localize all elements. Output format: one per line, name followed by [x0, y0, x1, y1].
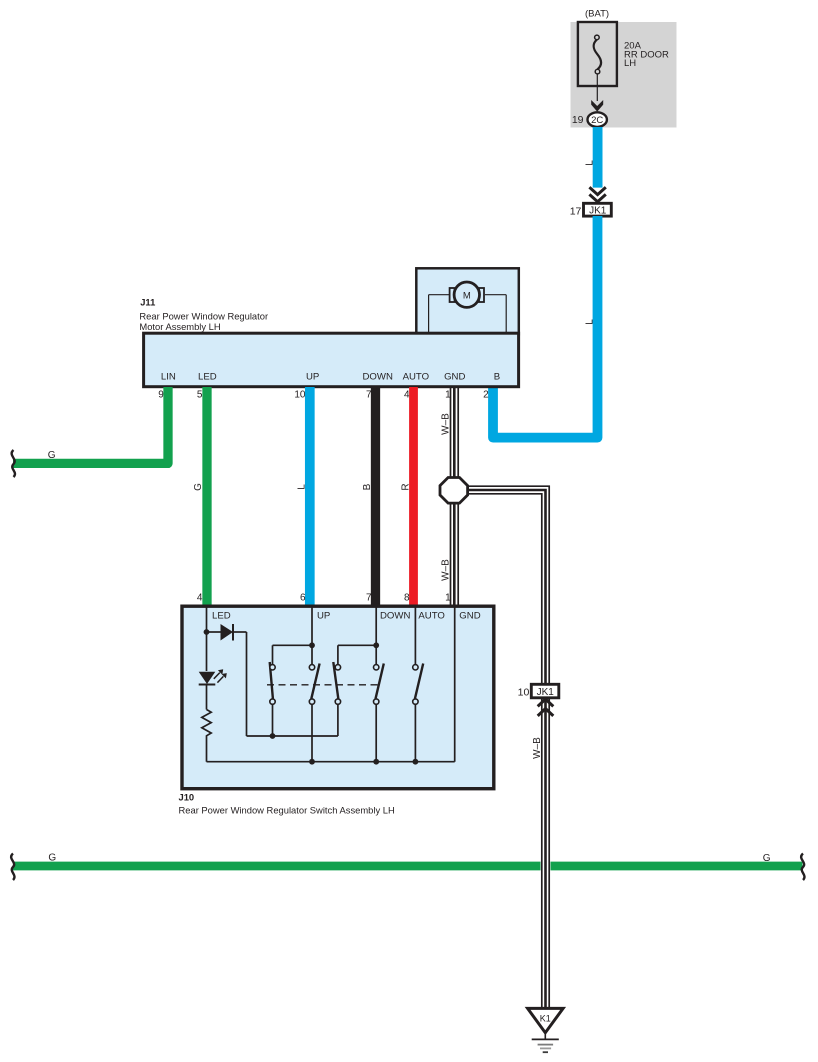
svg-text:JK1: JK1	[537, 687, 555, 698]
svg-text:6: 6	[300, 593, 306, 604]
svg-text:10: 10	[518, 687, 530, 699]
svg-text:L: L	[585, 160, 596, 166]
svg-text:G: G	[48, 853, 56, 864]
svg-text:W–B: W–B	[440, 559, 451, 581]
svg-text:5: 5	[197, 390, 203, 401]
svg-text:8: 8	[404, 593, 410, 604]
svg-text:DOWN: DOWN	[380, 611, 410, 622]
svg-text:W–B: W–B	[532, 737, 543, 759]
svg-text:17: 17	[570, 206, 582, 218]
svg-text:M: M	[463, 290, 471, 301]
svg-text:1: 1	[445, 593, 451, 604]
svg-text:19: 19	[572, 114, 584, 126]
svg-text:AUTO: AUTO	[403, 372, 429, 383]
svg-text:W–B: W–B	[440, 413, 451, 435]
svg-text:4: 4	[197, 593, 203, 604]
svg-text:2C: 2C	[591, 115, 603, 126]
svg-text:(BAT): (BAT)	[585, 9, 609, 20]
svg-text:Rear Power Window Regulator: Rear Power Window Regulator	[139, 311, 268, 322]
svg-text:7: 7	[366, 593, 372, 604]
svg-text:UP: UP	[306, 372, 319, 383]
svg-text:AUTO: AUTO	[418, 611, 444, 622]
svg-text:JK1: JK1	[589, 205, 607, 216]
svg-text:10: 10	[294, 390, 306, 401]
svg-text:Rear Power Window Regulator Sw: Rear Power Window Regulator Switch Assem…	[179, 805, 395, 816]
svg-text:2: 2	[483, 390, 489, 401]
svg-text:UP: UP	[317, 611, 330, 622]
svg-text:G: G	[48, 450, 56, 461]
svg-text:J10: J10	[179, 792, 195, 803]
svg-text:LIN: LIN	[161, 372, 176, 383]
svg-text:B: B	[494, 372, 500, 383]
svg-text:LED: LED	[212, 611, 231, 622]
svg-text:B: B	[362, 483, 373, 490]
svg-text:L: L	[584, 319, 595, 325]
svg-text:L: L	[296, 484, 307, 490]
svg-text:GND: GND	[459, 611, 480, 622]
svg-text:J11: J11	[140, 297, 155, 308]
svg-text:R: R	[400, 483, 411, 490]
svg-text:G: G	[763, 853, 771, 864]
svg-text:K1: K1	[540, 1014, 551, 1024]
svg-text:LH: LH	[624, 58, 636, 69]
svg-text:DOWN: DOWN	[363, 372, 393, 383]
svg-text:G: G	[193, 483, 204, 491]
svg-text:GND: GND	[444, 372, 465, 383]
svg-text:9: 9	[158, 390, 164, 401]
svg-text:LED: LED	[198, 372, 217, 383]
svg-text:Motor Assembly LH: Motor Assembly LH	[139, 321, 220, 332]
